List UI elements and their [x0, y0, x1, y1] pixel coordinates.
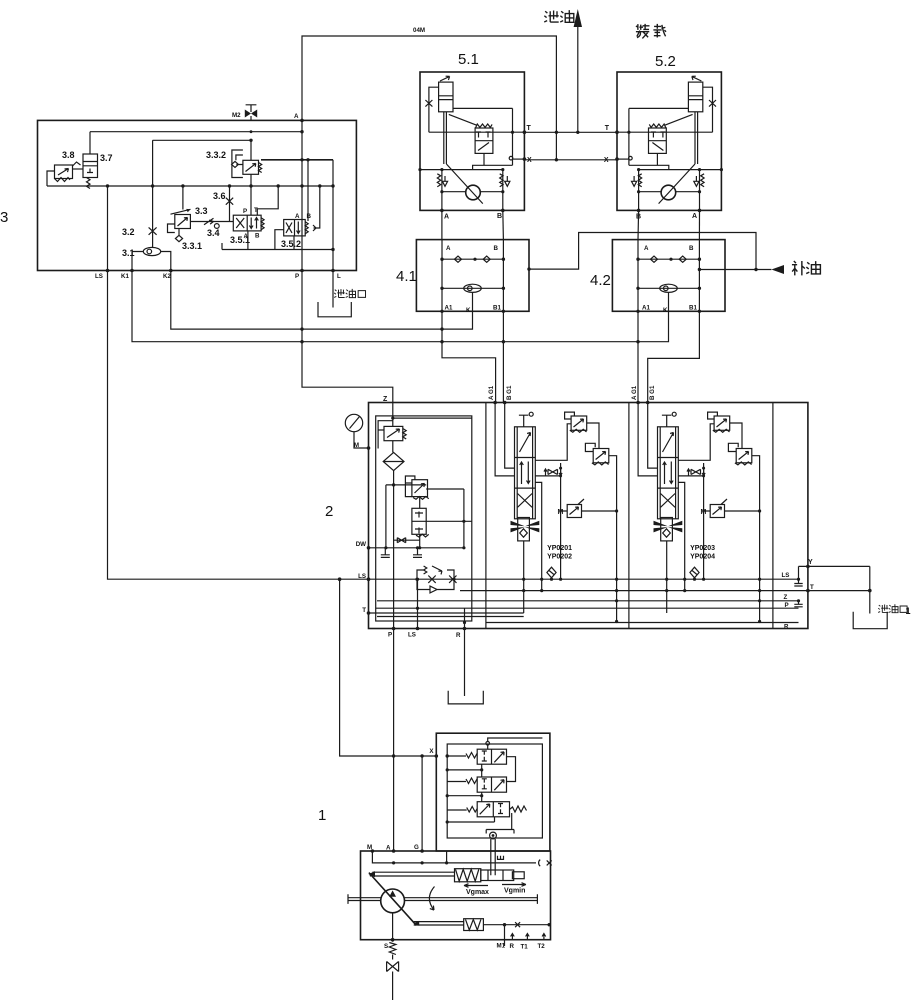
svg-text:R: R [510, 943, 515, 950]
variable pump symbol [348, 873, 537, 926]
svg-text:T2: T2 [538, 943, 546, 950]
svg-text:YP0202: YP0202 [547, 554, 572, 561]
tank 泄油口1 [853, 604, 910, 628]
P rail [376, 607, 799, 609]
pilot pressure reducing valve [384, 476, 472, 549]
makeup oil line 补油 [698, 261, 821, 275]
manifold 3 outline [0, 120, 356, 270]
svg-text:B: B [689, 245, 694, 252]
wire A-P vertical [301, 120, 303, 270]
solenoid valve V3 [446, 792, 527, 829]
svg-text:LS: LS [408, 632, 416, 639]
svg-text:5.2: 5.2 [655, 53, 676, 70]
pump housing [361, 844, 551, 940]
svg-text:B: B [307, 213, 312, 220]
wire LS branch down to X [340, 579, 449, 758]
valve 3.7 [73, 132, 113, 189]
svg-text:P: P [388, 632, 392, 639]
valve 3.3 [168, 186, 208, 233]
T rail [460, 590, 808, 592]
svg-text:1: 1 [906, 606, 911, 616]
port T right labels [782, 572, 872, 630]
svg-text:M: M [354, 442, 359, 449]
drain riser 泄油 [544, 9, 582, 134]
label 1 [318, 807, 326, 824]
solenoid valve V1 [447, 738, 542, 782]
port L [331, 269, 341, 280]
manifold 2 outline [325, 403, 808, 629]
partition left pilot box [376, 416, 472, 621]
svg-text:B: B [494, 245, 499, 252]
wire K1 to 4.2 K [132, 271, 669, 344]
svg-text:3.8: 3.8 [62, 150, 75, 160]
wire 04M pilot line [302, 27, 558, 162]
LS rail with limiter [358, 566, 798, 593]
svg-text:T: T [810, 584, 814, 591]
port A of block 3 [294, 113, 304, 122]
node X line between motors [524, 159, 617, 161]
svg-text:LS: LS [358, 573, 366, 580]
svg-text:3.7: 3.7 [100, 153, 113, 163]
svg-text:3.5.2: 3.5.2 [281, 239, 301, 249]
svg-text:4.2: 4.2 [590, 272, 611, 289]
svg-text:Z: Z [383, 396, 388, 403]
svg-text:K: K [466, 307, 471, 314]
svg-text:B: B [255, 233, 260, 240]
svg-text:A: A [444, 214, 449, 221]
svg-text:M: M [558, 509, 564, 516]
orifice 3.6 [213, 186, 233, 222]
T left stub rail [362, 607, 523, 615]
wire P to Z port of block 2 [302, 271, 393, 403]
svg-text:3.3: 3.3 [195, 206, 208, 216]
valve 3.3.2 [206, 140, 333, 186]
pilot check 3.3.1 [175, 229, 202, 252]
valve 3.5.1 [230, 186, 278, 245]
svg-text:04M: 04M [413, 27, 425, 34]
node T line between motors [524, 131, 617, 133]
tank 泄油口 [318, 271, 366, 317]
wire drain rail of 3.5 valves [222, 230, 335, 252]
wire pump internal rail [372, 851, 551, 866]
svg-text:4.1: 4.1 [396, 268, 417, 285]
filter [383, 452, 404, 628]
svg-text:R: R [784, 623, 789, 630]
brake valve block 4.1 [396, 240, 529, 314]
proportional section 1 [488, 385, 618, 623]
R rail [377, 617, 799, 623]
svg-text:A1: A1 [445, 305, 453, 312]
port P [295, 269, 304, 280]
port Y line to drain [799, 559, 870, 614]
svg-text:X: X [527, 157, 532, 164]
wire K2 to 4.1 K [171, 271, 473, 331]
svg-text:LS: LS [95, 273, 103, 280]
svg-text:M2: M2 [232, 112, 241, 119]
svg-text:3: 3 [0, 209, 8, 226]
svg-text:P: P [785, 602, 789, 609]
suction port S [384, 913, 399, 1000]
solenoid control box [429, 733, 550, 851]
wire upper rail [90, 130, 304, 133]
port K2 [163, 269, 173, 280]
wire 5.1A to 4.1 [441, 210, 443, 239]
svg-text:L: L [337, 273, 341, 280]
svg-text:K: K [663, 307, 668, 314]
svg-text:LS: LS [782, 572, 790, 579]
bottom ports of block 2 [388, 578, 466, 639]
port K1 [121, 269, 134, 280]
svg-text:R: R [456, 632, 461, 639]
partition section walls [486, 403, 773, 629]
tank at R port [448, 608, 483, 704]
orifice 3.2 [122, 140, 157, 247]
wire 4.2 A1 to port A-G2 [637, 311, 639, 402]
wire L vertical [332, 160, 334, 271]
Z rail [377, 600, 799, 602]
svg-text:A: A [692, 213, 697, 220]
svg-text:B: B [497, 213, 502, 220]
port LS [95, 269, 109, 280]
svg-text:T1: T1 [521, 944, 529, 951]
svg-text:A: A [386, 845, 391, 852]
svg-text:B1: B1 [689, 305, 697, 312]
svg-text:G: G [414, 844, 419, 851]
right edge plugs [794, 566, 802, 606]
valve 3.5.2 [281, 160, 320, 249]
wire G branch [421, 756, 423, 851]
svg-text:3.6: 3.6 [213, 191, 226, 201]
svg-text:3.1: 3.1 [122, 248, 135, 258]
svg-text:A: A [446, 245, 451, 252]
svg-text:YP0203: YP0203 [690, 545, 715, 552]
svg-text:1: 1 [318, 807, 326, 824]
port DW line [356, 538, 464, 550]
throttle 3.4 [190, 218, 233, 238]
svg-text:M1: M1 [497, 943, 506, 950]
svg-text:YP0201: YP0201 [547, 545, 572, 552]
wire 5.2A to 4.2 [698, 210, 700, 239]
pressure gauge [345, 414, 370, 450]
wire 5.2B to 4.2 [637, 210, 640, 239]
svg-text:Z: Z [784, 594, 788, 601]
svg-text:P: P [243, 208, 247, 215]
svg-text:A1: A1 [642, 305, 650, 312]
motor unit 5.2 (mirror) [604, 53, 723, 221]
svg-text:Vgmax: Vgmax [466, 889, 489, 896]
unloading relief valve top [378, 403, 472, 453]
servo feedback linkage [446, 817, 514, 876]
motor unit 5.1 [418, 51, 532, 221]
wire 4.2 B1 to port B-G2 [648, 311, 700, 402]
svg-text:3.3.1: 3.3.1 [182, 241, 202, 251]
svg-text:YP0204: YP0204 [690, 554, 715, 561]
wire LS internal [107, 186, 109, 271]
svg-text:5.1: 5.1 [458, 51, 479, 68]
shuttle valve 3.1 [122, 247, 171, 270]
svg-text:A: A [294, 113, 299, 120]
svg-text:M: M [701, 509, 707, 516]
svg-text:3.4: 3.4 [207, 228, 220, 238]
svg-text:X: X [604, 157, 609, 164]
port Z top [383, 396, 388, 403]
plugged ports [381, 546, 422, 557]
svg-text:T: T [527, 125, 532, 132]
svg-text:K1: K1 [121, 273, 129, 280]
svg-text:A: A [644, 245, 649, 252]
svg-text:3.3.2: 3.3.2 [206, 150, 226, 160]
wire LS to block 2 [108, 271, 369, 582]
wire 4.1 A1 to port A-G1 [442, 311, 496, 402]
brake valve block 4.2 [590, 240, 725, 314]
svg-text:B1: B1 [493, 305, 501, 312]
wire 4.1 B1 to port B-G1 [502, 311, 504, 402]
wire second rail [153, 139, 253, 142]
proportional section 2 [631, 385, 761, 623]
svg-text:P: P [295, 273, 299, 280]
svg-text:S: S [384, 943, 388, 950]
svg-text:2: 2 [325, 503, 333, 520]
test point M2 [232, 105, 257, 121]
solenoid valve V2 [446, 764, 507, 792]
svg-text:Vgmin: Vgmin [504, 888, 525, 895]
bias spring assembly [414, 919, 551, 946]
wire 5.1B to 4.1 [502, 210, 505, 239]
wire P of block2 to pump A [393, 629, 395, 852]
valve 3.8 [47, 150, 81, 186]
svg-text:T: T [362, 607, 366, 614]
label 装载 [636, 24, 666, 38]
wire main internal rail [47, 184, 335, 187]
drain ports M1 R T1 T2 [497, 934, 546, 951]
wire crossover 4.1 to 补油 line [527, 233, 757, 272]
svg-text:3.2: 3.2 [122, 227, 135, 237]
svg-text:K2: K2 [163, 273, 171, 280]
svg-text:T: T [605, 125, 610, 132]
stroking cylinder Vgmax [369, 869, 526, 896]
svg-text:DW: DW [356, 541, 366, 548]
